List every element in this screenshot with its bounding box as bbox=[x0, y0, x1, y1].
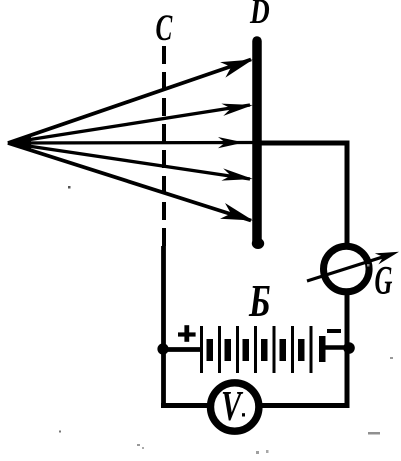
light ray 3 (middle) with arrowhead bbox=[8, 137, 254, 148]
galvanometer G needle arrow bbox=[307, 252, 399, 281]
scan speck marks (decorative) bbox=[59, 431, 61, 433]
node: left junction dot bbox=[157, 343, 168, 354]
light ray 5 (bottom) with arrowhead bbox=[8, 143, 253, 221]
svg-text:D: D bbox=[249, 0, 270, 31]
battery Б end thick plate bbox=[319, 336, 326, 362]
plate D bbox=[252, 41, 262, 243]
wire: battery left stub bbox=[163, 347, 201, 352]
light ray 2 with arrowhead bbox=[8, 104, 253, 143]
galvanometer G (circle body) bbox=[324, 246, 370, 292]
wire: bottom left segment to voltmeter bbox=[164, 403, 210, 406]
svg-text:C: C bbox=[156, 7, 173, 48]
light source point (ray convergence) bbox=[7, 137, 31, 150]
wire: bottom right segment from voltmeter bbox=[259, 350, 347, 406]
battery Б short thick (negative) plates bbox=[207, 339, 305, 361]
voltmeter V (circle body) bbox=[211, 383, 259, 431]
light ray 1 (topmost) with arrowhead bbox=[8, 60, 253, 144]
svg-text:V: V bbox=[221, 382, 243, 429]
wire: plate D to galvanometer G (right top corner) bbox=[260, 143, 347, 246]
light ray 4 with arrowhead bbox=[8, 143, 253, 181]
battery Б long (positive) plates bbox=[200, 326, 313, 373]
svg-text:G: G bbox=[375, 259, 393, 303]
battery + terminal sign bbox=[178, 325, 196, 342]
svg-text:Б: Б bbox=[248, 275, 270, 326]
battery - terminal sign bbox=[327, 329, 341, 333]
wire: galvanometer G to battery right node bbox=[345, 291, 350, 352]
node: right junction dot bbox=[343, 342, 355, 354]
wire: left vertical (below C) bbox=[161, 246, 166, 403]
dashed grid line C bbox=[162, 46, 166, 247]
dot after V label bbox=[242, 413, 245, 416]
wire: battery right stub bbox=[325, 345, 349, 350]
